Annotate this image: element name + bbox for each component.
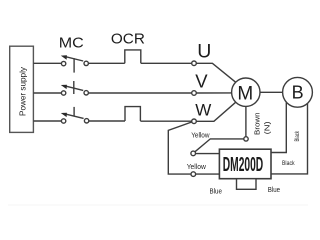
wire brake left black <box>271 103 286 153</box>
yellow terminal 1 <box>191 151 196 156</box>
svg-text:Black: Black <box>282 160 295 167</box>
MC linkage dashed segment 3 <box>73 107 75 116</box>
wire motor N down <box>245 106 247 136</box>
terminal V <box>192 91 197 96</box>
contact MC pole3 left terminal <box>61 119 65 123</box>
arrowhead MC pole2 <box>61 85 67 89</box>
wire L3 contact to OCR <box>89 120 125 122</box>
wire L3 OCR to W terminal <box>140 120 191 122</box>
wire W to motor <box>196 102 235 121</box>
svg-text:OCR: OCR <box>111 31 145 48</box>
wire L2 contact to V terminal <box>88 92 191 94</box>
wire brown junction to yellow terminal 1 <box>195 139 244 152</box>
DM200D box <box>219 149 271 179</box>
junction terminal brown N <box>244 137 248 141</box>
svg-text:Brown: Brown <box>253 112 262 135</box>
wire L1 from power supply <box>33 62 61 64</box>
wire yellow terminal 1 to DM200D <box>196 153 220 155</box>
svg-text:B: B <box>292 82 304 102</box>
wire yellow terminal 2 to DM200D <box>196 173 220 175</box>
yellow terminal 2 <box>191 172 196 177</box>
OCR heater element L1 <box>125 50 141 63</box>
wire motor to brake <box>260 91 283 93</box>
svg-text:(N): (N) <box>262 121 271 135</box>
wire brake right black <box>271 104 308 174</box>
svg-text:MC: MC <box>59 35 84 52</box>
wire L2 from power supply <box>33 92 61 94</box>
terminal U <box>192 61 197 66</box>
svg-text:W: W <box>195 101 211 120</box>
wire L1 contact to OCR <box>88 62 124 64</box>
contact MC pole1 right terminal <box>84 61 88 65</box>
wire W terminal down to yellow terminal 2 <box>168 122 191 174</box>
svg-text:Blue: Blue <box>268 185 280 194</box>
svg-text:V: V <box>195 70 208 91</box>
svg-text:Power supply: Power supply <box>18 67 27 116</box>
contact MC pole1 left terminal <box>61 61 65 65</box>
brake circle B <box>283 77 313 107</box>
MC linkage dashed segment 2 <box>73 81 75 94</box>
svg-text:U: U <box>197 41 211 63</box>
wire U to motor <box>196 63 235 82</box>
contact MC pole2 left terminal <box>61 91 65 95</box>
svg-text:Yellow: Yellow <box>191 130 210 139</box>
contact MC pole3 right terminal <box>84 119 88 123</box>
motor circle M <box>232 78 260 106</box>
power supply box <box>10 46 34 132</box>
wire L3 from power supply <box>33 120 61 122</box>
svg-text:M: M <box>237 84 253 105</box>
contact MC pole2 blade <box>64 86 84 91</box>
svg-text:Yellow: Yellow <box>187 162 207 171</box>
wire L1 OCR to U terminal <box>141 62 192 64</box>
MC linkage dashed segment 1 <box>73 58 75 72</box>
contact MC pole2 right terminal <box>84 91 88 95</box>
contact MC pole3 blade <box>64 114 84 119</box>
contact MC pole1 blade <box>64 56 84 61</box>
terminal W <box>192 119 197 124</box>
arrowhead MC pole1 <box>61 55 67 59</box>
DM200D bottom tab <box>237 179 257 190</box>
faint bottom rule <box>8 204 308 206</box>
arrowhead MC pole3 <box>61 113 67 117</box>
svg-text:Blue: Blue <box>210 187 223 196</box>
wire V to motor <box>196 92 231 94</box>
OCR heater element L3 <box>125 107 140 121</box>
svg-text:DM200D: DM200D <box>223 153 264 176</box>
svg-text:Black: Black <box>295 130 301 141</box>
